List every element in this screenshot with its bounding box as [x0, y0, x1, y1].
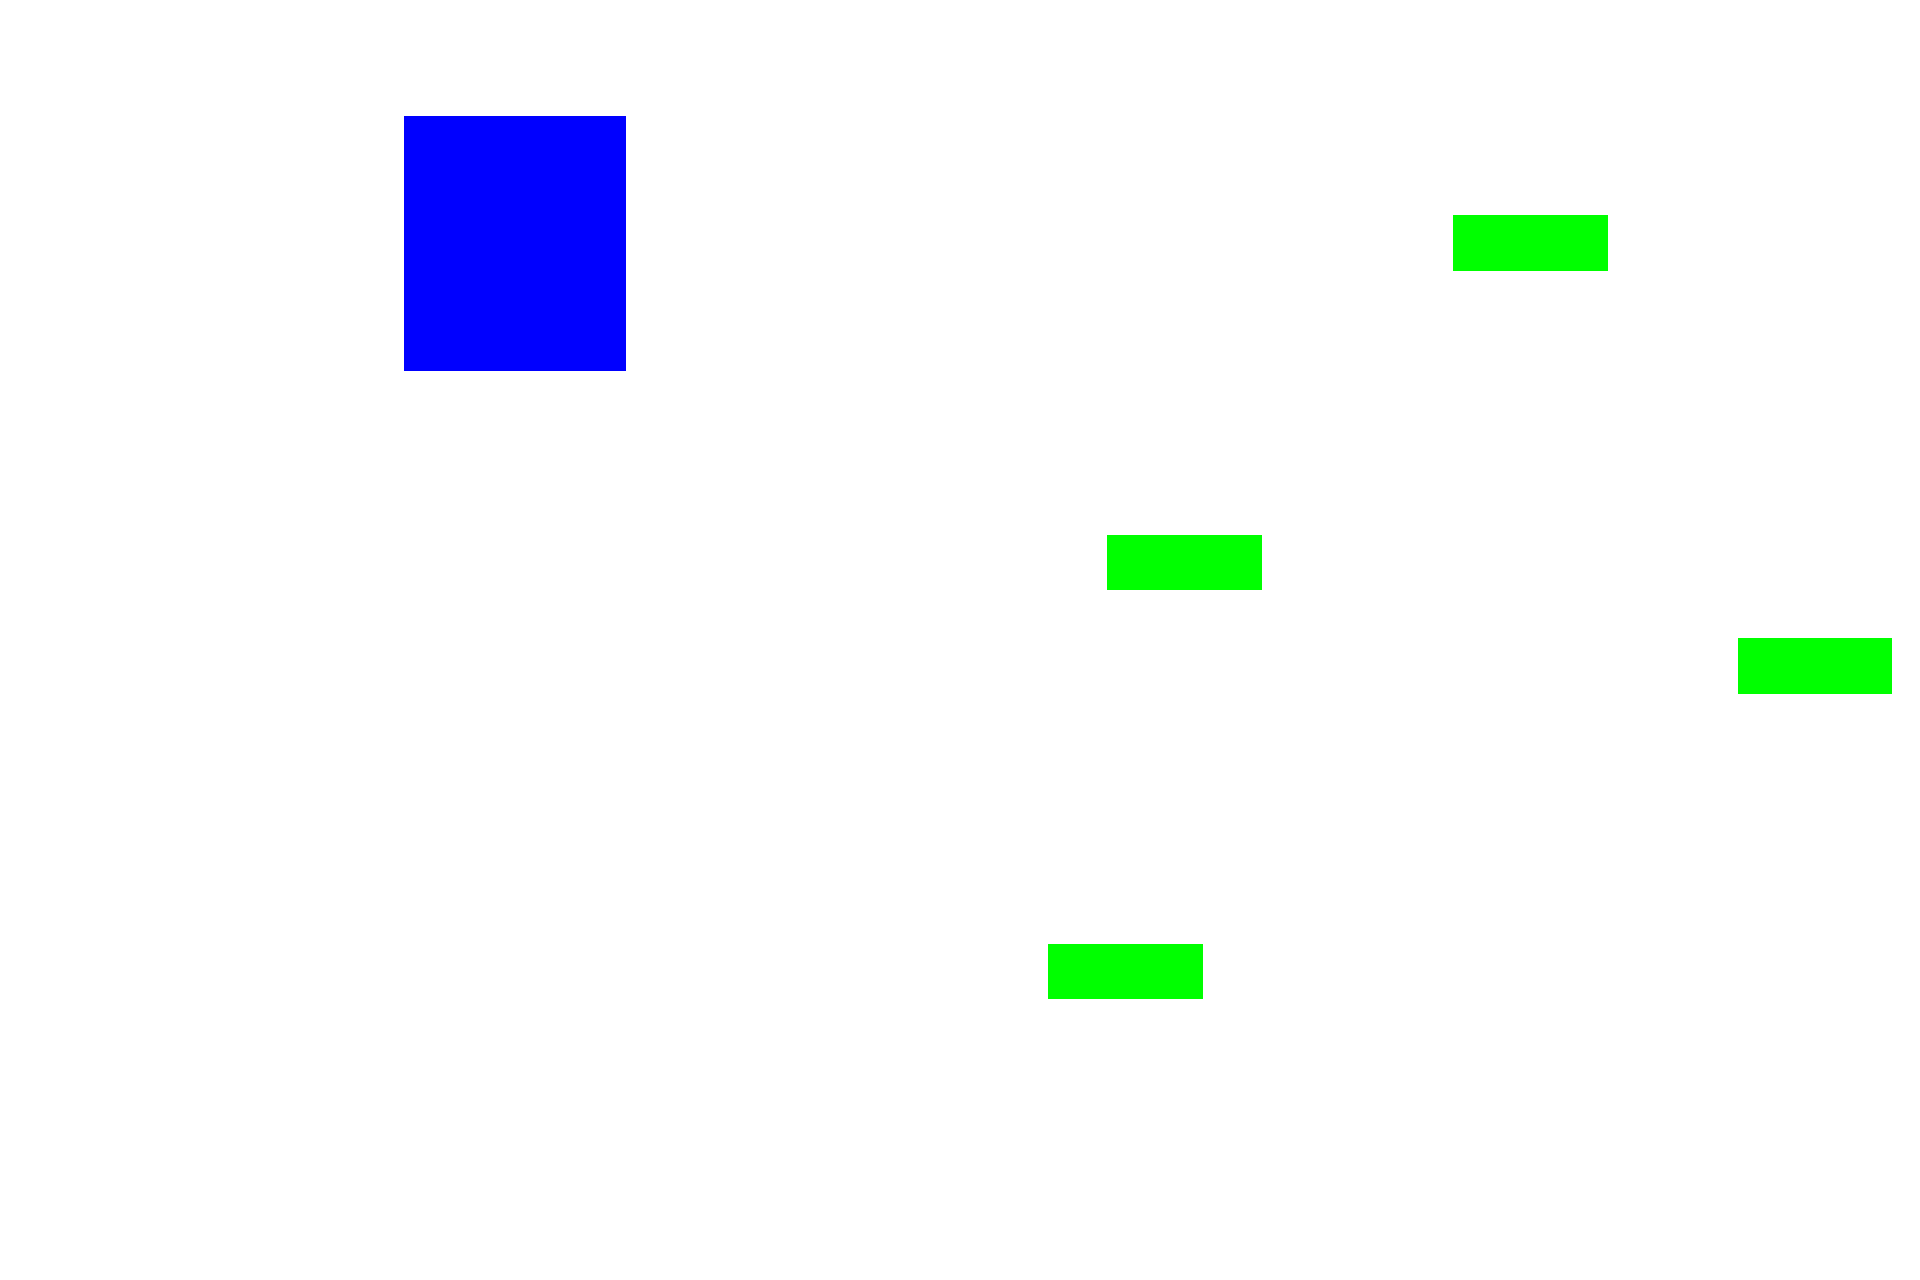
green rectangle 2 (middle)	[1107, 535, 1262, 590]
blue rectangle (image placeholder)	[404, 116, 626, 371]
green rectangle 4 (bottom middle)	[1048, 944, 1203, 999]
green rectangle 3 (right edge)	[1738, 638, 1892, 694]
green rectangle 1 (top right)	[1453, 215, 1608, 271]
